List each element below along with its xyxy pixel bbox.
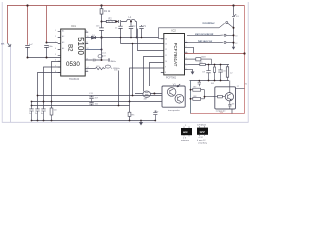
svg-text:11: 11	[86, 42, 88, 44]
wire crystal	[135, 93, 162, 95]
wire x102 drop	[101, 6, 103, 38]
node junction x101.4 y49.4	[101, 49, 103, 51]
capacitor C2 at x27.5	[25, 46, 30, 58]
wire stub x118.8	[118, 71, 120, 106]
svg-text:R3: R3	[200, 62, 204, 64]
vertical bias to box	[229, 81, 231, 87]
svg-text:ant: ant	[1, 43, 5, 46]
svg-text:0530: 0530	[66, 61, 80, 68]
svg-text:17: 17	[237, 86, 240, 88]
capacitor C10 bias	[218, 65, 222, 81]
node junction on rail x102	[100, 4, 102, 6]
node junction x27.5 y57.2	[27, 57, 29, 59]
resistor R8 output	[191, 98, 205, 100]
svg-text:4n7: 4n7	[95, 97, 99, 99]
svg-text:3: 3	[55, 42, 56, 44]
svg-text:B2: B2	[67, 44, 73, 52]
ground arrow IC2 pin69.3	[185, 69, 193, 71]
staircase wire to IC2 pin44.5	[121, 43, 164, 45]
svg-text:4n7: 4n7	[29, 44, 33, 46]
vertical x129.4 with component	[129, 102, 131, 121]
frame border	[2, 2, 248, 122]
capacitor C12 between buses	[89, 102, 93, 106]
wire chain end drop	[135, 22, 136, 38]
node junctions on buses	[37, 95, 39, 97]
crystal X2	[143, 91, 151, 97]
svg-text:1: 1	[186, 41, 187, 43]
svg-text:22p: 22p	[132, 25, 136, 27]
svg-text:transponder: transponder	[168, 109, 180, 112]
svg-text:5: 5	[55, 54, 56, 56]
svg-text:C8: C8	[103, 55, 107, 57]
svg-text:10: 10	[235, 36, 238, 38]
svg-text:2 3: 2 3	[183, 137, 187, 139]
svg-text:1: 1	[185, 125, 187, 127]
node junction x154.4 y93.2	[153, 93, 155, 95]
svg-text:8: 8	[165, 72, 166, 74]
transistor V3 output	[225, 93, 233, 101]
svg-text:1: 1	[55, 30, 56, 32]
wire IC2 pin1 riser	[159, 28, 220, 39]
svg-text:4: 4	[186, 58, 187, 60]
svg-text:R5: R5	[132, 115, 136, 117]
wire 12V bottom-right feed	[191, 113, 245, 115]
svg-text:5100: 5100	[76, 37, 85, 55]
ground arrow right bus	[233, 44, 235, 47]
svg-text:A2: A2	[62, 35, 64, 38]
capacitor C3 at x46.6	[44, 46, 49, 58]
legend block G1	[181, 128, 192, 135]
svg-text:C9: C9	[202, 72, 206, 74]
svg-text:TDA5100: TDA5100	[69, 78, 80, 81]
svg-text:antenna: antenna	[181, 139, 190, 142]
svg-text:smartkey: smartkey	[198, 142, 208, 145]
IC1 pin number labels	[55, 30, 89, 73]
svg-text:4MHz: 4MHz	[110, 61, 116, 63]
svg-text:2: 2	[186, 46, 187, 48]
wire red drop x27.5	[27, 6, 29, 45]
capacitor C7 at x141.5	[139, 25, 143, 38]
wire IC1 left staircase pin72.5	[38, 73, 61, 109]
staircase wire to IC2 pin56.3	[144, 57, 164, 92]
op IC2 body	[164, 34, 185, 75]
svg-text:D1: D1	[92, 35, 96, 37]
svg-text:S1: S1	[236, 16, 239, 18]
svg-text:C11: C11	[89, 93, 94, 95]
resistor R2 horizontal	[106, 20, 115, 22]
svg-text:13: 13	[165, 43, 167, 45]
resistor R6 at x51.7	[51, 115, 53, 121]
resistor R9 on IC1 pin68.5	[85, 68, 95, 70]
svg-text:9: 9	[86, 31, 87, 33]
resistor R5	[128, 112, 131, 116]
op IC1 body	[61, 29, 85, 76]
capacitor C17 on IC1 pin60	[85, 59, 101, 62]
inductor L1	[127, 19, 136, 21]
svg-text:L1: L1	[129, 16, 132, 19]
svg-text:8: 8	[55, 71, 56, 73]
ground arrow bottom	[140, 121, 142, 123]
svg-text:6: 6	[55, 60, 56, 62]
svg-text:ant: ant	[183, 130, 188, 134]
svg-text:4 12: 4 12	[199, 137, 204, 139]
diode Z1 on pin59.1	[188, 58, 196, 60]
transistor box V1 V2	[162, 86, 185, 107]
svg-text:12V: 12V	[220, 112, 224, 114]
wire red drop x46.6	[46, 6, 48, 43]
svg-text:IC2: IC2	[172, 29, 177, 33]
coil L2 bias	[227, 65, 229, 81]
svg-text:100n: 100n	[48, 46, 54, 48]
svg-text:2: 2	[55, 36, 56, 38]
legend block G2	[197, 128, 208, 135]
svg-text:A1: A1	[62, 30, 64, 33]
transistor V1	[167, 88, 176, 97]
resistor R7 output	[190, 81, 192, 114]
svg-text:A3: A3	[62, 41, 64, 44]
wire chain y21.8	[102, 21, 127, 23]
capacitor C15 at x43.7	[41, 109, 45, 121]
svg-text:immobiliser: immobiliser	[203, 22, 215, 25]
switch S1	[233, 6, 235, 16]
wire join	[205, 90, 215, 99]
wire switch bus down	[233, 28, 235, 44]
resistor R4 bias	[214, 65, 216, 81]
bus y101	[32, 101, 163, 103]
wire oscillator to IC2 pin62.2	[150, 63, 164, 87]
svg-text:BZX: BZX	[202, 57, 207, 59]
wire to IC2 pin67.8	[130, 68, 164, 102]
antenna symbol left	[8, 43, 11, 47]
resistor R10 inside output box	[213, 96, 218, 98]
node junction x101.2 y60	[101, 59, 103, 61]
bus y105.7	[32, 105, 130, 107]
svg-text:5: 5	[186, 63, 187, 65]
svg-text:4M: 4M	[144, 99, 147, 101]
capacitor C18 inside output box	[228, 104, 231, 109]
wire from node to IC1 pin	[47, 42, 58, 44]
staircase wire to IC2 pin50.1	[138, 29, 164, 51]
svg-text:C10: C10	[222, 70, 227, 72]
svg-text:0m: 0m	[54, 110, 57, 112]
svg-text:47p: 47p	[143, 25, 147, 27]
capacitor C14 at x37.7	[35, 109, 39, 121]
capacitor C6s series	[119, 20, 121, 23]
wire IC1 pin y49.4 blue	[85, 49, 101, 51]
resistor R3 on pin64.2 rail	[188, 64, 200, 66]
node junctions bottom bus	[31, 120, 33, 122]
wire IC1 left staircase pin67.1	[44, 67, 61, 109]
output box	[215, 87, 236, 109]
svg-text:100n: 100n	[154, 111, 158, 113]
svg-text:osc1: osc1	[102, 53, 107, 55]
IC2 right pins	[185, 43, 194, 70]
svg-text:L2: L2	[230, 72, 233, 74]
svg-text:IC1: IC1	[72, 24, 77, 28]
capacitor C13 at x31.6	[29, 102, 33, 121]
node junction on rail x233.6	[232, 4, 234, 6]
svg-text:10: 10	[165, 61, 167, 63]
node junction x102 y37.9	[100, 36, 102, 38]
node junction x46.6 y42.7	[46, 42, 48, 44]
node junction on rail x27.5	[26, 4, 28, 6]
capacitor C6 hanging at x120.5	[118, 23, 122, 38]
crystal X2 oval	[104, 68, 106, 70]
arrow into box	[177, 84, 180, 87]
svg-text:A4: A4	[62, 47, 64, 50]
svg-text:12V: 12V	[199, 130, 204, 134]
IC1 left pins	[58, 32, 61, 73]
IC2 pin number labels	[165, 39, 187, 75]
wire bottom bias rail	[190, 80, 230, 82]
node junction x136.7 y37.4	[136, 37, 138, 39]
svg-text:11: 11	[165, 55, 167, 57]
wire output box feed	[231, 109, 233, 113]
wire red drop x7	[7, 6, 9, 44]
node junction x102 y21.8	[101, 21, 103, 23]
wire top bias rail	[205, 64, 229, 66]
svg-text:X1: X1	[245, 84, 248, 86]
svg-text:12: 12	[165, 49, 167, 51]
svg-text:15: 15	[86, 70, 88, 72]
wire antenna light drop	[10, 47, 12, 123]
crystal X1 cluster	[98, 55, 102, 58]
capacitor C9 bias	[206, 65, 210, 81]
svg-text:12: 12	[235, 43, 238, 45]
svg-text:12V(8)12: 12V(8)12	[197, 124, 207, 126]
node junction x46.6 y57.2	[46, 57, 48, 59]
capacitor C5 at x102	[99, 28, 104, 31]
diode D1	[85, 37, 91, 39]
svg-text:9: 9	[165, 67, 166, 69]
node junction x116.6 y21.8	[116, 21, 118, 23]
capacitor C11 between buses	[89, 96, 93, 102]
node junction x120.6 y37.4	[120, 37, 122, 39]
svg-text:4: 4	[55, 48, 56, 50]
wire x101.4 down	[101, 38, 103, 61]
wire osc box cap	[153, 110, 157, 120]
IC2 left pin stubs	[161, 39, 164, 73]
wire 12V right rail	[244, 6, 246, 114]
IC1 right pins	[85, 32, 88, 72]
bottom ground bus	[32, 120, 156, 122]
svg-text:PCF7961: PCF7961	[166, 76, 177, 79]
svg-text:10n: 10n	[96, 26, 100, 28]
capacitor C6 at x131.2	[129, 22, 133, 38]
svg-text:7: 7	[55, 66, 56, 68]
svg-text:R1 1k: R1 1k	[104, 10, 111, 13]
bus y95.4	[38, 95, 163, 97]
svg-text:1n: 1n	[115, 27, 118, 29]
svg-text:R2: R2	[109, 17, 113, 20]
capacitor C19 below rail	[198, 81, 201, 87]
svg-text:PCF7961AT: PCF7961AT	[173, 43, 178, 67]
node junction right rail y53.6	[243, 52, 245, 54]
wire rail y37.4	[102, 38, 159, 44]
svg-text:14: 14	[165, 39, 167, 41]
resistor R1 vertical at x102	[100, 9, 103, 14]
wire ground bus y57.2	[28, 57, 61, 59]
node junction x130.9 y21.8	[130, 21, 132, 23]
transistor V2	[175, 94, 184, 103]
svg-text:V3: V3	[232, 103, 235, 105]
wire IC1 left staircase pin61.2	[52, 62, 61, 109]
wire IC2 pin52.8 to right rail	[185, 53, 245, 55]
wire 12V top rail	[7, 5, 245, 7]
svg-text:R4: R4	[211, 83, 215, 85]
